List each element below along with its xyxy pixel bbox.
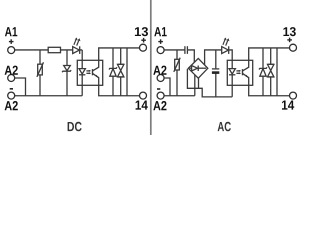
optocoupler U1 xyxy=(77,60,102,85)
wire: drop into optocoupler LED anode xyxy=(81,50,83,60)
terminal 14 (AC) xyxy=(290,92,297,99)
wire: output branch 3 xyxy=(126,48,128,96)
wire: bridge upper-right to top rail xyxy=(205,50,233,65)
wire: A2 rail to bridge lower-left edge xyxy=(194,75,196,96)
output diode V6 xyxy=(259,67,267,76)
terminal A2 lower (AC) xyxy=(157,92,164,99)
wire: output branch 2 xyxy=(120,48,122,96)
wire: optocoupler LED cathode pin (AC) xyxy=(231,85,233,97)
minus sign A2 (DC) xyxy=(10,88,13,90)
plus sign 13 (DC) xyxy=(141,38,146,43)
label A1 (AC) xyxy=(154,27,166,36)
terminal A1 (DC) xyxy=(8,47,15,54)
label 14 (DC) xyxy=(136,101,148,110)
wire: electrolytic capacitor leads xyxy=(215,50,217,68)
wire: emitter pin to 14 rail (AC) xyxy=(249,85,290,95)
wire: collector pin to 13 rail (AC) xyxy=(249,48,290,60)
label 14 (AC) xyxy=(282,101,294,110)
wire: bridge bottom corner lead xyxy=(198,78,200,88)
label A2 lower (AC) xyxy=(153,101,166,110)
terminal 13 (DC) xyxy=(140,44,147,51)
wire: varistor branch xyxy=(39,50,41,96)
terminal 14 (DC) xyxy=(140,92,147,99)
optocoupler LED (AC) xyxy=(229,60,235,85)
wire: A2 bottom rail xyxy=(15,95,83,97)
label A1 (DC) xyxy=(5,27,17,36)
label DC xyxy=(68,122,82,132)
suppressor diode V4 xyxy=(118,64,124,77)
label AC xyxy=(218,122,231,132)
minus sign A2 (AC) xyxy=(157,88,160,90)
wire: output branch 3 (AC) xyxy=(276,48,278,96)
LED V2 xyxy=(73,38,81,54)
terminal 13 (AC) xyxy=(290,44,297,51)
electrolytic capacitor C2 xyxy=(212,69,219,74)
terminal A2 upper (DC) xyxy=(8,75,15,82)
terminal A2 lower (DC) xyxy=(8,92,15,99)
bridge rectifier G1 xyxy=(188,58,208,78)
plus sign A1 (AC) xyxy=(158,39,163,44)
wire: optocoupler LED cathode pin xyxy=(81,85,83,95)
wire: output branch 2 (AC) xyxy=(270,48,272,96)
terminal A1 (AC) xyxy=(157,47,164,54)
resistor R1 xyxy=(48,47,60,52)
wire: zener branch xyxy=(66,50,68,96)
terminal A2 upper (AC) xyxy=(157,75,164,82)
optocoupler U2 xyxy=(227,60,252,85)
optocoupler phototransistor xyxy=(93,60,99,85)
wire: bridge left corner to minus rail jog xyxy=(187,69,232,97)
optocoupler light arrows xyxy=(86,70,91,74)
wire: capacitor to bridge upper-left xyxy=(188,50,195,63)
wire: output branch 1 (AC) xyxy=(262,48,264,96)
label 13 (AC) xyxy=(283,27,295,36)
label 13 (DC) xyxy=(135,27,148,36)
optocoupler light arrows (AC) xyxy=(236,70,241,74)
wire: A2 upper jog (AC) xyxy=(164,78,170,96)
optocoupler phototransistor (AC) xyxy=(243,60,249,85)
label A2 lower (DC) xyxy=(5,101,18,110)
zener diode V1 xyxy=(62,66,71,73)
wire: output branch 1 xyxy=(112,48,114,96)
label A2 upper (AC) xyxy=(153,66,166,75)
plus sign 13 (AC) xyxy=(287,38,292,43)
output diode V3 xyxy=(109,67,117,76)
capacitor C1 xyxy=(185,46,188,54)
label A2 upper (DC) xyxy=(5,66,18,75)
wire: A2 bottom rail (AC) xyxy=(164,95,195,97)
wire: A1 top rail xyxy=(15,49,83,51)
wire: varistor branch (AC) xyxy=(176,50,178,96)
wire: emitter pin to 14 rail xyxy=(99,85,140,95)
wire: A2 upper jog xyxy=(15,78,26,96)
wire: collector pin to 13 rail xyxy=(99,48,140,60)
divider line between DC and AC diagrams xyxy=(150,0,152,135)
optocoupler LED xyxy=(79,60,85,85)
plus sign A1 (DC) xyxy=(9,39,14,44)
suppressor diode V7 xyxy=(268,64,274,77)
varistor RU1 xyxy=(37,62,44,77)
wire: A1 top rail to capacitor xyxy=(164,49,185,51)
varistor RU2 xyxy=(174,58,180,72)
LED V5 xyxy=(222,38,230,54)
